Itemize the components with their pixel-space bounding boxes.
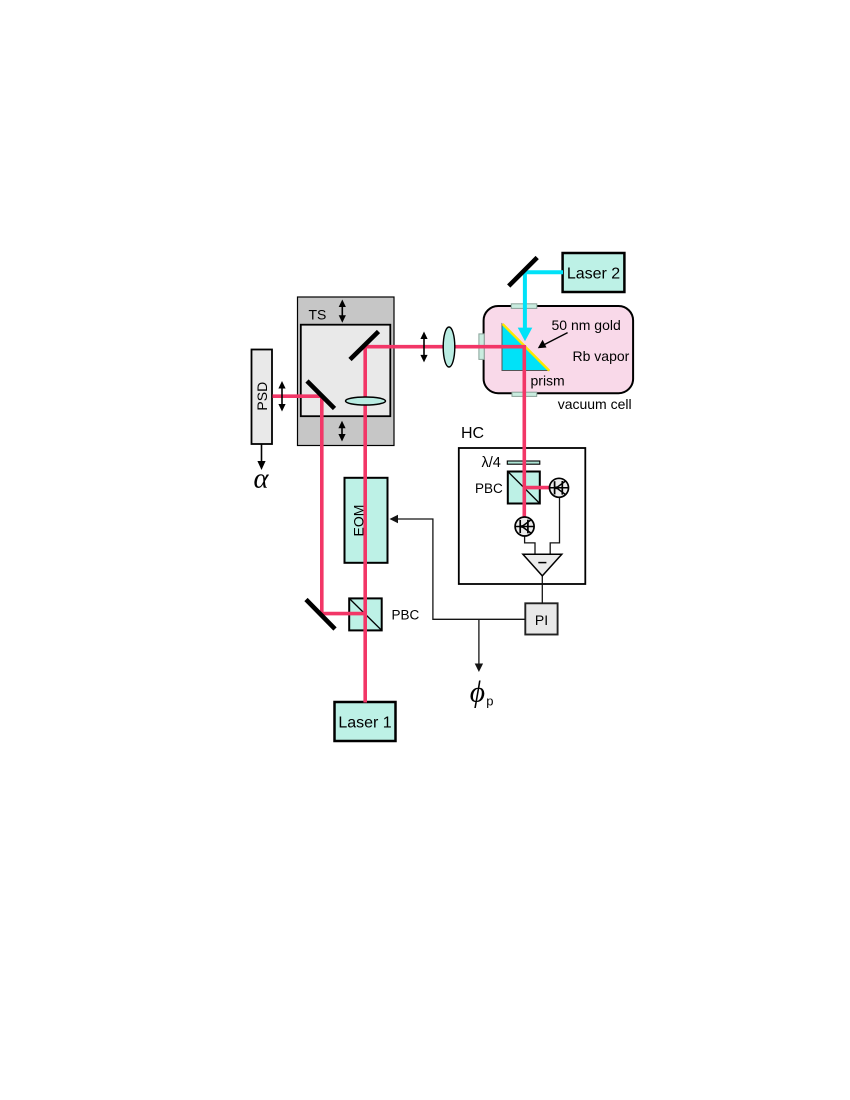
svg-text:Laser 1: Laser 1 (338, 715, 391, 732)
svg-text:Rb vapor: Rb vapor (573, 348, 630, 364)
svg-text:λ/4: λ/4 (482, 455, 501, 471)
svg-text:HC: HC (461, 425, 484, 442)
svg-text:PBC: PBC (475, 481, 503, 496)
svg-text:ϕ: ϕ (470, 677, 485, 709)
svg-text:PI: PI (535, 612, 548, 628)
svg-text:PSD: PSD (254, 382, 270, 411)
svg-text:prism: prism (531, 373, 565, 389)
svg-text:vacuum cell: vacuum cell (558, 396, 632, 412)
svg-text:PBC: PBC (392, 608, 420, 623)
svg-text:Laser 2: Laser 2 (567, 266, 620, 283)
svg-text:p: p (486, 694, 493, 709)
svg-text:TS: TS (309, 307, 327, 323)
svg-text:α: α (254, 464, 270, 495)
svg-text:50 nm gold: 50 nm gold (552, 317, 621, 333)
